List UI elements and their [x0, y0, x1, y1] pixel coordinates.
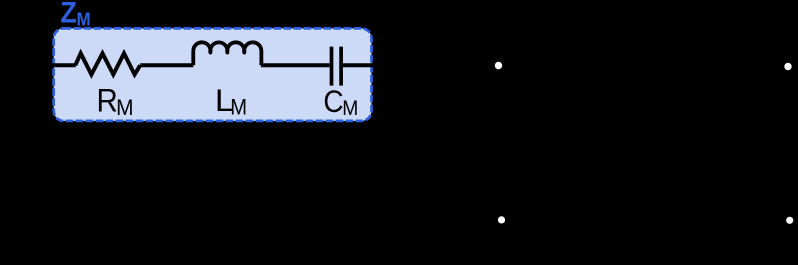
impedance box Z_M shunt branch (hidden)	[716, 66, 720, 110]
wire resistor to inductor	[140, 63, 193, 67]
terminal top-left	[494, 61, 503, 70]
wire capacitor to box edge	[343, 63, 378, 67]
terminal bottom-left	[497, 215, 506, 224]
svg-text:M: M	[116, 96, 133, 121]
svg-text:C: C	[590, 117, 612, 150]
svg-text:R: R	[97, 82, 118, 119]
svg-text:0: 0	[610, 129, 622, 152]
svg-text:M: M	[342, 96, 358, 120]
svg-text:C: C	[323, 84, 343, 119]
wire inductor to capacitor	[261, 63, 330, 67]
svg-text:M: M	[77, 9, 91, 30]
motional branch dashed box Z_M	[54, 28, 372, 121]
svg-text:Z: Z	[60, 0, 76, 29]
wire top rail (hidden black on black)	[498, 65, 788, 66]
capacitor C_M right plate	[339, 47, 343, 86]
wire left lead into resistor	[40, 63, 76, 67]
resistor R_M	[75, 53, 140, 74]
capacitor C_M left plate	[330, 47, 334, 86]
wire bottom rail (hidden black on black)	[501, 218, 789, 222]
svg-text:M: M	[230, 94, 247, 119]
capacitor C0 shunt branch (hidden)	[568, 66, 572, 128]
terminal bottom-right	[785, 216, 794, 225]
terminal top-right	[783, 62, 792, 71]
inductor L_M	[193, 42, 261, 65]
label Z_M	[60, 0, 90, 30]
